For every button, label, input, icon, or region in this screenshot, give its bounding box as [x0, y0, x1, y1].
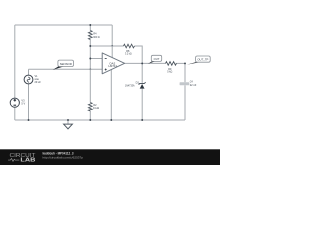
wire output right segment	[176, 62, 186, 64]
wire feedback left segment	[90, 45, 123, 47]
node junction zener bus	[141, 119, 143, 121]
svg-text:5 V: 5 V	[21, 101, 25, 105]
node flag SENSOR	[53, 60, 74, 70]
wire V1 top	[28, 69, 30, 75]
wire minus-node vertical	[89, 40, 91, 103]
node junction V1 bus	[28, 119, 30, 121]
wire op-amp output	[125, 62, 166, 64]
footer bar	[0, 149, 220, 165]
svg-text:OUT: OUT	[154, 57, 160, 61]
svg-text:LAB: LAB	[20, 158, 35, 164]
wire R2 bottom stub	[89, 111, 91, 120]
node junction R2 bus	[89, 119, 91, 121]
wire sensor net to non-inverting input	[29, 68, 103, 70]
wire capacitor branch	[184, 63, 186, 120]
ground	[64, 120, 73, 129]
wire left rail lower	[14, 107, 16, 120]
svg-text:SENSOR: SENSOR	[60, 62, 73, 66]
voltage source V3 (DC)	[10, 98, 25, 107]
node junction ground bus	[67, 119, 69, 121]
wire left rail upper	[14, 25, 16, 98]
wire op-amp V+ supply pin	[111, 25, 113, 58]
svg-text:1N4733A: 1N4733A	[125, 84, 135, 88]
resistor R2	[89, 103, 100, 112]
svg-text:9 kΩ: 9 kΩ	[93, 106, 99, 110]
wire ground bus	[15, 119, 185, 121]
svg-text:D1: D1	[136, 81, 140, 85]
footer author text	[43, 152, 74, 156]
node junction output feedback	[141, 62, 143, 64]
wire feedback right segment	[135, 46, 143, 63]
svg-text:3.2 kΩ: 3.2 kΩ	[125, 51, 132, 55]
svg-text:5 kΩ: 5 kΩ	[167, 69, 172, 73]
node flag OUT	[148, 55, 162, 64]
wire V1 bottom	[28, 84, 30, 120]
wire op-amp V- supply pin	[110, 70, 112, 120]
svg-text:OUT_TP: OUT_TP	[197, 58, 208, 62]
svg-text:20 Hz: 20 Hz	[35, 80, 42, 84]
wire zener branch	[141, 63, 143, 120]
node junction R4 top	[89, 24, 91, 26]
wire R4 top stub	[89, 25, 91, 31]
resistor R8	[124, 44, 135, 55]
capacitor C4	[180, 80, 197, 88]
node junction output TP	[184, 62, 186, 64]
svg-text:http://circuitlab.com/c/62537p: http://circuitlab.com/c/62537p	[43, 156, 84, 160]
svg-text:LM741: LM741	[109, 64, 118, 68]
node junction minus input tap	[89, 58, 91, 60]
op-amp OA2 LM741	[102, 53, 124, 74]
node junction minus node feedback	[89, 45, 91, 47]
wire hop at sensor / minus-node crossing	[89, 67, 91, 70]
zener diode D1	[125, 81, 146, 89]
footer CircuitLab logo	[8, 153, 36, 164]
wire top rail	[15, 24, 112, 26]
node flag OUT_TP	[187, 56, 210, 65]
wire hop at feedback / V+ crossing	[111, 44, 113, 47]
voltage source V1 (sine)	[24, 74, 41, 84]
svg-text:22 nF: 22 nF	[190, 83, 197, 87]
resistor R4	[89, 31, 100, 40]
wire inverting input stub	[90, 58, 102, 60]
footer url text	[43, 156, 84, 160]
node junction V- bus	[110, 119, 112, 121]
resistor R9	[166, 62, 177, 74]
svg-text:600 Ω: 600 Ω	[93, 35, 99, 39]
